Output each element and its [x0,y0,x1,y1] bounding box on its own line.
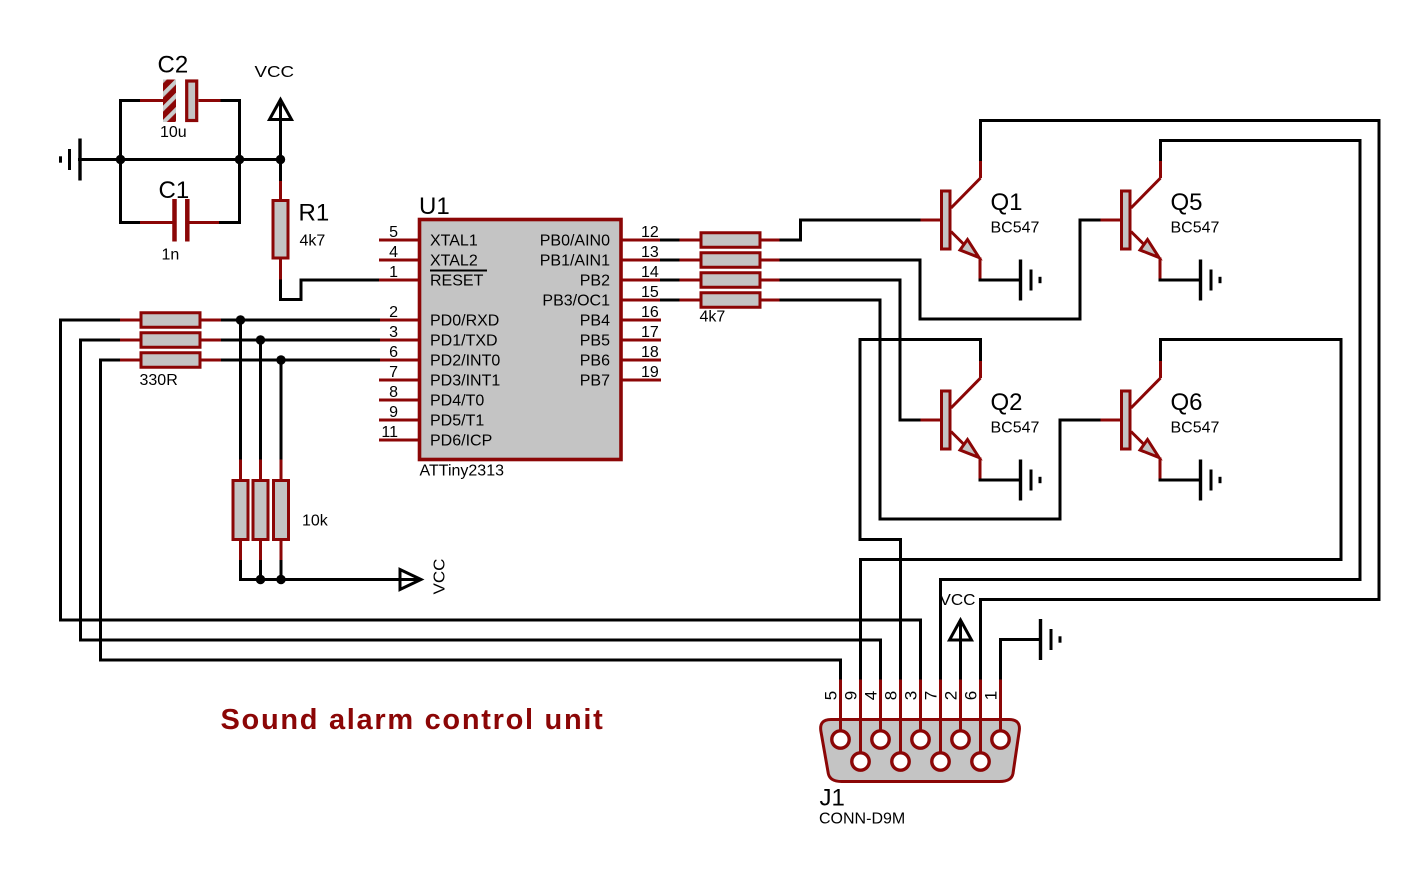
svg-text:1: 1 [389,264,398,281]
svg-text:BC547: BC547 [991,420,1040,437]
svg-text:U1: U1 [419,193,450,220]
svg-text:ATTiny2313: ATTiny2313 [420,463,505,480]
ground (Q6) [1201,460,1221,501]
resistor 4k7 pack #2 [660,253,781,268]
pin 7 (PD3/INT1) U1 left [379,364,500,390]
svg-text:PD1/TXD: PD1/TXD [430,333,498,350]
junction 10k #2 bottom [256,575,265,584]
wire right vertical C2/C1 [238,99,241,224]
svg-text:C2: C2 [158,52,189,79]
pin 1 (RESET) U1 left [379,264,484,290]
capacitor C1 [140,199,220,242]
pin 17 (PB5) U1 right [580,324,661,350]
pin 5 J1 [822,680,850,749]
pin 9 (PD5/T1) U1 left [379,404,484,430]
svg-text:1: 1 [982,691,1001,700]
svg-text:4: 4 [862,691,881,700]
pin 18 (PB6) U1 right [580,344,661,370]
wire pin14 to Q2 base [780,280,923,420]
wire Q2 emitter to ground [979,479,1022,482]
svg-text:18: 18 [641,344,659,361]
svg-text:VCC: VCC [432,559,449,595]
wire C1 left [119,221,140,224]
pin 5 (XTAL1) U1 left [379,224,478,250]
svg-text:330R: 330R [140,372,178,389]
svg-text:17: 17 [641,324,659,341]
svg-text:8: 8 [882,691,901,700]
svg-text:VCC: VCC [940,592,976,609]
node junction right [276,155,285,164]
svg-text:14: 14 [641,264,659,281]
svg-text:19: 19 [641,364,659,381]
svg-text:9: 9 [389,404,398,421]
wire Q5 emitter to ground [1159,279,1202,282]
resistor 330R #2 [119,333,223,348]
pin 8 J1 [882,680,910,771]
pin 3 (PD1/TXD) U1 left [379,324,498,350]
svg-text:PB5: PB5 [580,333,610,350]
wire pin13 to Q5 base [780,220,1103,319]
wire C2 right [221,99,242,102]
svg-text:7: 7 [389,364,398,381]
svg-text:C1: C1 [159,177,190,204]
svg-text:2: 2 [389,304,398,321]
svg-text:PB7: PB7 [580,373,610,390]
svg-text:3: 3 [902,691,921,700]
pin 19 (PB7) U1 right [580,364,661,390]
junction 10k #3 bottom [276,575,285,584]
ground (Q2) [1021,460,1041,501]
pin 1 J1 [982,680,1010,749]
ground (top-left) [61,139,81,181]
wire node to R1 [279,158,282,181]
pin 11 (PD6/ICP) U1 left [379,424,492,450]
ic U1 body [420,220,622,460]
svg-text:11: 11 [381,424,398,441]
resistor 4k7 pack #3 [660,273,781,288]
power VCC (top) [270,100,292,120]
pin 12 (PB0/AIN0) U1 right [540,224,661,250]
wire Q2 collector to pin8 loop [860,340,981,682]
wire VCC down [279,103,282,161]
svg-text:CONN-D9M: CONN-D9M [819,811,905,828]
pin 14 (PB2) U1 right [580,264,661,290]
wire PD0 left loop [61,320,921,620]
pin 4 (XTAL2) U1 left [379,244,478,270]
pin 7 J1 [922,680,950,771]
pin 6 (PD2/INT0) U1 left [379,344,500,370]
svg-text:PD0/RXD: PD0/RXD [430,313,499,330]
wire C1 right [219,221,241,224]
pin 9 J1 [842,680,870,771]
svg-text:XTAL2: XTAL2 [430,253,478,270]
power VCC (right-pointing) [400,570,421,590]
pin 8 (PD4/T0) U1 left [379,384,484,410]
svg-text:1n: 1n [162,247,180,264]
svg-text:VCC: VCC [255,64,295,81]
svg-text:9: 9 [842,691,861,700]
svg-text:PD5/T1: PD5/T1 [430,413,484,430]
svg-text:BC547: BC547 [991,220,1040,237]
capacitor C2 [140,80,222,123]
resistor 10k #2 [253,340,268,581]
svg-text:PB4: PB4 [580,313,610,330]
resistor 4k7 pack #4 [660,293,781,308]
svg-text:RESET: RESET [430,273,484,290]
svg-text:5: 5 [822,691,841,700]
wire PD1 row [221,339,380,342]
svg-text:XTAL1: XTAL1 [430,233,478,250]
svg-text:16: 16 [641,304,659,321]
svg-text:PB3/OC1: PB3/OC1 [542,293,610,310]
wire PD1 left loop [81,340,881,640]
junction PD0/10k [236,315,245,324]
wire Q6 collector to pin9 loop [861,340,1342,682]
pin 4 J1 [862,680,890,749]
ground (Q1) [1021,260,1041,301]
resistor 10k #3 [274,360,289,581]
svg-text:12: 12 [641,224,659,241]
ground (bottom) [1041,619,1061,660]
RESET overline [430,270,487,272]
power VCC (bottom) [950,620,972,640]
svg-text:6: 6 [962,691,981,700]
svg-text:Q1: Q1 [991,189,1023,216]
wire Q5 collector to pin7 loop [941,141,1361,682]
wire pin12 to Q1 base [780,220,923,240]
wire PD2 left loop [101,360,841,660]
svg-text:4k7: 4k7 [700,309,726,326]
svg-text:15: 15 [641,284,659,301]
svg-text:BC547: BC547 [1171,420,1220,437]
pin 2 (PD0/RXD) U1 left [379,304,499,330]
wire pin1 to ground [1001,640,1042,682]
svg-text:8: 8 [389,384,398,401]
wire pin15 to Q6 base [780,300,1103,519]
wire left vertical C2/C1 [119,101,122,223]
wire C2 left [119,99,140,102]
wire PD0 row [221,319,380,322]
resistor R1 [273,181,288,281]
resistor 330R #3 [119,353,223,368]
pin 16 (PB4) U1 right [580,304,661,330]
wire pin5 drop [839,659,842,682]
svg-text:13: 13 [641,244,659,261]
svg-text:J1: J1 [820,785,845,812]
pin 2 J1 [942,680,970,749]
svg-text:4k7: 4k7 [300,233,326,250]
wire PD2 row [221,359,380,362]
svg-text:Sound alarm control unit: Sound alarm control unit [221,704,605,736]
transistor Q6 [1101,360,1161,481]
svg-text:PB0/AIN0: PB0/AIN0 [540,233,610,250]
wire 10k commons to VCC [239,578,418,581]
svg-text:PB6: PB6 [580,353,610,370]
ground (Q5) [1201,260,1221,301]
wire pin3 drop [919,619,922,682]
svg-text:Q6: Q6 [1171,389,1203,416]
wire Q6 emitter to ground [1159,479,1202,482]
svg-text:PD2/INT0: PD2/INT0 [430,353,500,370]
wire node horizontal [120,158,281,161]
transistor Q5 [1101,160,1161,281]
pin 13 (PB1/AIN1) U1 right [540,244,661,270]
svg-text:10u: 10u [160,124,187,141]
svg-text:PB1/AIN1: PB1/AIN1 [540,253,610,270]
pin 3 J1 [902,680,930,749]
svg-text:7: 7 [922,691,941,700]
wire VCC to pin2 [959,623,962,681]
wire R1 to RESET [281,280,381,300]
node junction left [116,155,125,164]
svg-text:3: 3 [389,324,398,341]
pin 6 J1 [962,680,990,771]
transistor Q1 [921,160,981,281]
svg-text:PD4/T0: PD4/T0 [430,393,484,410]
svg-text:Q5: Q5 [1171,189,1203,216]
pin 15 (PB3/OC1) U1 right [542,284,661,310]
svg-text:5: 5 [389,224,398,241]
junction PD2/10k [276,355,285,364]
svg-text:PD6/ICP: PD6/ICP [430,433,492,450]
resistor 330R #1 [119,313,223,328]
connector J1 body [821,720,1020,782]
wire Q1 emitter to ground [979,279,1022,282]
wire ground to node [78,158,122,161]
resistor 10k #1 [233,320,248,581]
wire Q1 collector to pin6 loop [981,121,1380,682]
svg-text:PB2: PB2 [580,273,610,290]
svg-text:6: 6 [389,344,398,361]
svg-text:2: 2 [942,691,961,700]
svg-text:BC547: BC547 [1171,220,1220,237]
svg-text:10k: 10k [302,513,329,530]
junction PD1/10k [256,335,265,344]
resistor 4k7 pack #1 [660,233,781,248]
svg-text:4: 4 [389,244,398,261]
svg-text:PD3/INT1: PD3/INT1 [430,373,500,390]
node junction middle [235,155,244,164]
svg-text:Q2: Q2 [991,389,1023,416]
svg-text:R1: R1 [299,200,330,227]
wire pin4 drop [879,639,882,682]
transistor Q2 [921,360,981,481]
